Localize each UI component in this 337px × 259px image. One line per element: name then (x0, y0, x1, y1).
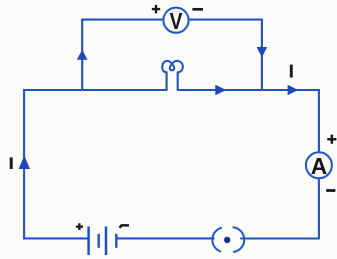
battery B1 plate short 1 (97, 234, 99, 248)
label - (voltmeter) (192, 8, 203, 11)
lamp L1 filament (162, 61, 183, 72)
lamp L1 leads (167, 72, 178, 91)
svg-text:A: A (311, 153, 327, 179)
current arrow on voltmeter left branch (up) (77, 50, 88, 60)
plug key K1 dot (224, 237, 230, 243)
wire: bottom segment battery to plug key (116, 237, 214, 239)
label + (ammeter) (327, 135, 336, 144)
label + (battery) (76, 223, 83, 230)
wire: voltmeter branch (up, across, down) (82, 20, 262, 90)
plug key K1 right arc (233, 227, 245, 252)
wire: main loop left/top-left/bottom-left segment (24, 90, 167, 238)
current arrow on top wire (right, near lamp) (215, 85, 226, 96)
label I (left wire) (10, 157, 13, 169)
battery B1 plate long 2 (105, 227, 108, 256)
label - (battery) (120, 225, 130, 227)
wire: bottom-right / right / top-right segment (178, 90, 319, 239)
plug key K1 left arc (212, 228, 222, 252)
battery B1 plate long 1 (87, 227, 90, 256)
label I (top right) (290, 65, 293, 78)
ammeter A1 circle (306, 152, 332, 178)
battery B1 plate short 2 (115, 234, 117, 248)
label - (ammeter) (326, 189, 335, 192)
current arrow on voltmeter right branch (down) (257, 47, 268, 57)
svg-text:V: V (170, 8, 183, 34)
current arrow on left wire (up) (19, 156, 30, 169)
voltmeter V1 circle (163, 8, 188, 33)
current arrow on top wire (right, near corner) (288, 85, 299, 95)
label + (voltmeter) (152, 5, 160, 13)
